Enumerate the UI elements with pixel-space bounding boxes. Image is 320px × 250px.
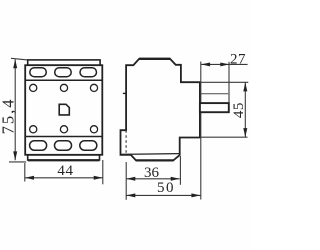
svg-text:27: 27 xyxy=(230,51,246,67)
svg-text:45: 45 xyxy=(231,102,247,118)
svg-text:50: 50 xyxy=(157,180,175,196)
svg-text:36: 36 xyxy=(144,165,160,181)
svg-text:75,4: 75,4 xyxy=(0,97,18,134)
svg-text:44: 44 xyxy=(57,163,73,179)
